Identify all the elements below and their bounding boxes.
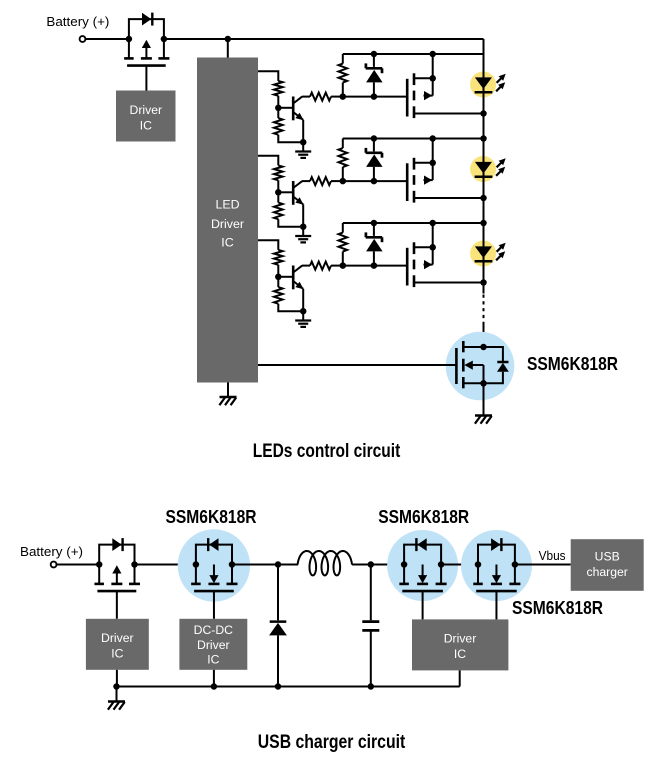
wire M6 gate to U5: [422, 591, 424, 619]
svg-text:Battery (+): Battery (+): [20, 544, 83, 559]
USB charger box: [571, 539, 644, 591]
wire U4 to ground rail: [213, 670, 215, 687]
svg-text:USB charger circuit: USB charger circuit: [258, 732, 406, 753]
wire battery to Q1 [top]: [85, 38, 128, 40]
wire U2 output ch2: [258, 156, 278, 166]
wire base ch3: [278, 276, 292, 278]
zener diode Z2: [366, 139, 383, 182]
node rail ch3: [480, 220, 487, 227]
SSM6K818R highlight circle M5: [178, 529, 250, 601]
svg-text:Driver: Driver: [197, 638, 230, 652]
wire gate node ch1: [343, 96, 407, 98]
cell top rail ch2: [343, 138, 484, 140]
zener diode Z1: [366, 54, 383, 97]
wire U5 to ground rail: [459, 670, 461, 686]
P-MOSFET Q2 (input switch) with body diode D2: [99, 545, 134, 565]
svg-text:IC: IC: [140, 118, 152, 132]
Driver IC U5 box: [412, 619, 508, 670]
node U3 ground: [113, 683, 120, 690]
ground below U2 (chassis): [227, 383, 229, 398]
wire rail segment ch1: [483, 114, 485, 139]
svg-text:SSM6K818R: SSM6K818R: [166, 506, 257, 527]
LED2: [475, 139, 493, 199]
resistor R1a (divider upper): [274, 81, 283, 105]
wire M1 drain to LED cathode: [414, 113, 484, 115]
wire M2 drain to LED cathode: [414, 197, 484, 199]
wire base ch1: [278, 107, 292, 109]
dashed rail continuation: [483, 295, 485, 323]
LED Driver IC U2 box: [197, 58, 258, 383]
body diode of M4: [484, 347, 509, 383]
LED2 emission arrows: [496, 158, 506, 176]
wire base ch2: [278, 191, 292, 193]
wire LED3 cathode down: [483, 283, 485, 294]
wire M5 to inductor: [232, 564, 298, 566]
LED1: [475, 54, 493, 114]
LED3 emission arrows: [496, 243, 506, 261]
cell top rail ch1: [343, 53, 484, 55]
svg-text:IC: IC: [454, 647, 466, 661]
wire Q2 to M5: [135, 564, 196, 566]
N-MOSFET M4 (SSM6K818R LED string switch): [456, 341, 486, 388]
wire M3 drain to LED cathode: [414, 282, 484, 284]
svg-text:DC-DC: DC-DC: [194, 623, 233, 637]
N-MOSFET M6 (SSM6K818R load switch A) with body diode: [404, 545, 441, 565]
ground symbol [bottom] (chassis): [116, 687, 118, 702]
N-MOSFET M5 (SSM6K818R DC-DC high side) with body diode: [196, 545, 232, 565]
SSM6K818R highlight circle [top]: [446, 332, 515, 401]
LED1 emission arrows: [496, 74, 506, 92]
svg-text:Driver: Driver: [444, 632, 477, 646]
LED3 highlight: [470, 241, 496, 267]
ground ch1 (earth): [302, 143, 304, 152]
resistor R2c (base-collector series): [302, 177, 343, 185]
wire inductor to M6: [352, 564, 404, 566]
battery terminal node [top]: [80, 36, 86, 42]
battery terminal node [bottom]: [51, 562, 57, 568]
svg-text:Driver: Driver: [130, 103, 163, 117]
capacitor C1: [362, 565, 379, 687]
svg-text:Driver: Driver: [211, 217, 244, 231]
LED2 highlight: [470, 156, 496, 182]
SSM6K818R highlight circle M7: [461, 530, 532, 601]
node LED3 cathode: [480, 279, 487, 286]
resistor R1c (base-collector series): [302, 93, 343, 101]
node D3 ground: [275, 683, 282, 690]
node zener bottom ch1: [371, 93, 378, 100]
node zener top ch1: [371, 51, 378, 58]
node emitter/ground ch2: [300, 223, 307, 230]
wire U2 output to M4 gate: [258, 364, 456, 366]
wire right rail top corner: [483, 39, 485, 54]
resistor R2b (divider lower): [274, 195, 300, 226]
wire gate node ch2: [343, 180, 407, 182]
node divider ch2: [275, 189, 282, 196]
P-MOSFET M2 (LED bypass): [407, 135, 436, 202]
svg-text:Vbus: Vbus: [539, 548, 566, 563]
wire rail segment ch2: [483, 198, 485, 223]
wire M7 to USB charger: [515, 564, 571, 566]
svg-text:Battery (+): Battery (+): [46, 14, 109, 29]
wire U2 output ch3: [258, 240, 278, 250]
P-MOSFET Q1 (battery switch) with body diode D1: [129, 19, 164, 39]
node switch / freewheel diode top: [275, 561, 282, 568]
SSM6K818R highlight circle M6: [387, 530, 458, 601]
zener diode Z3: [366, 223, 383, 266]
N-MOSFET M7 (SSM6K818R load switch B) with body diode: [478, 545, 515, 565]
NPN transistor Q20: [293, 181, 303, 227]
inductor L1: [298, 551, 352, 575]
resistor R1b (divider lower): [274, 111, 300, 142]
ground rail [bottom]: [117, 686, 460, 688]
node LED1 cathode: [480, 110, 487, 117]
wire to M4 drain: [483, 322, 485, 347]
wire M5 gate to U4: [213, 591, 215, 619]
wire U3 to ground rail: [116, 670, 118, 687]
wire gate node ch3: [343, 265, 407, 267]
DC-DC Driver IC U4 box: [179, 619, 247, 670]
wire Q2 gate to U3: [116, 591, 118, 619]
node zener top ch2: [371, 135, 378, 142]
resistor R3b (divider lower): [274, 280, 300, 311]
NPN transistor Q10: [293, 97, 303, 143]
svg-text:SSM6K818R: SSM6K818R: [378, 506, 469, 527]
node rail ch2: [480, 135, 487, 142]
LED1 highlight: [470, 72, 496, 98]
node gate-pullup ch1: [340, 93, 347, 100]
svg-text:charger: charger: [587, 565, 628, 579]
svg-text:IC: IC: [207, 653, 219, 667]
wire node to U2 top: [227, 39, 229, 58]
resistor R2d (gate pull-up): [339, 139, 348, 182]
node gate-pullup ch2: [340, 178, 347, 185]
ground below M4 (chassis): [483, 383, 485, 415]
NPN transistor Q30: [293, 266, 303, 312]
ground ch2 (earth): [302, 228, 304, 237]
node gate-pullup ch3: [340, 262, 347, 269]
svg-text:IC: IC: [221, 236, 233, 250]
wire M7 gate to U5: [495, 591, 497, 619]
resistor R3c (base-collector series): [302, 262, 343, 270]
wire switch node to D3: [277, 565, 279, 621]
node divider ch3: [275, 274, 282, 281]
node emitter/ground ch3: [300, 308, 307, 315]
node zener top ch3: [371, 220, 378, 227]
node zener bottom ch3: [371, 262, 378, 269]
svg-text:Driver: Driver: [101, 631, 134, 645]
node zener bottom ch2: [371, 178, 378, 185]
cell top rail ch3: [343, 222, 484, 224]
resistor R1d (gate pull-up): [339, 54, 348, 97]
svg-text:USB: USB: [595, 549, 620, 563]
Driver IC U1 box: [116, 91, 176, 142]
Driver IC U3 box: [86, 619, 149, 670]
svg-text:SSM6K818R: SSM6K818R: [512, 597, 603, 618]
resistor R3a (divider upper): [274, 250, 283, 274]
wire M6 to M7: [441, 564, 478, 566]
resistor R2a (divider upper): [274, 165, 283, 189]
LED3: [475, 223, 493, 283]
svg-text:LED: LED: [215, 198, 239, 212]
wire Q1 to LED string rail: [164, 38, 484, 40]
node U4 ground: [211, 683, 218, 690]
freewheel diode D3: [269, 622, 287, 687]
resistor R3d (gate pull-up): [339, 223, 348, 266]
ground ch3 (earth): [302, 312, 304, 321]
P-MOSFET M1 (LED bypass): [407, 51, 436, 118]
node LED2 cathode: [480, 195, 487, 202]
wire battery to Q2 [bottom]: [57, 564, 100, 566]
wire U2 output ch1: [258, 71, 278, 81]
node emitter/ground ch1: [300, 139, 307, 146]
svg-text:LEDs control circuit: LEDs control circuit: [253, 441, 401, 462]
P-MOSFET M3 (LED bypass): [407, 220, 436, 287]
node divider ch1: [275, 105, 282, 112]
node at LED Driver IC supply: [225, 36, 232, 43]
svg-text:IC: IC: [111, 647, 123, 661]
svg-text:SSM6K818R: SSM6K818R: [527, 353, 618, 374]
wire Q1 gate to U1: [145, 66, 147, 91]
node C1 ground: [368, 683, 375, 690]
node output cap: [368, 561, 375, 568]
